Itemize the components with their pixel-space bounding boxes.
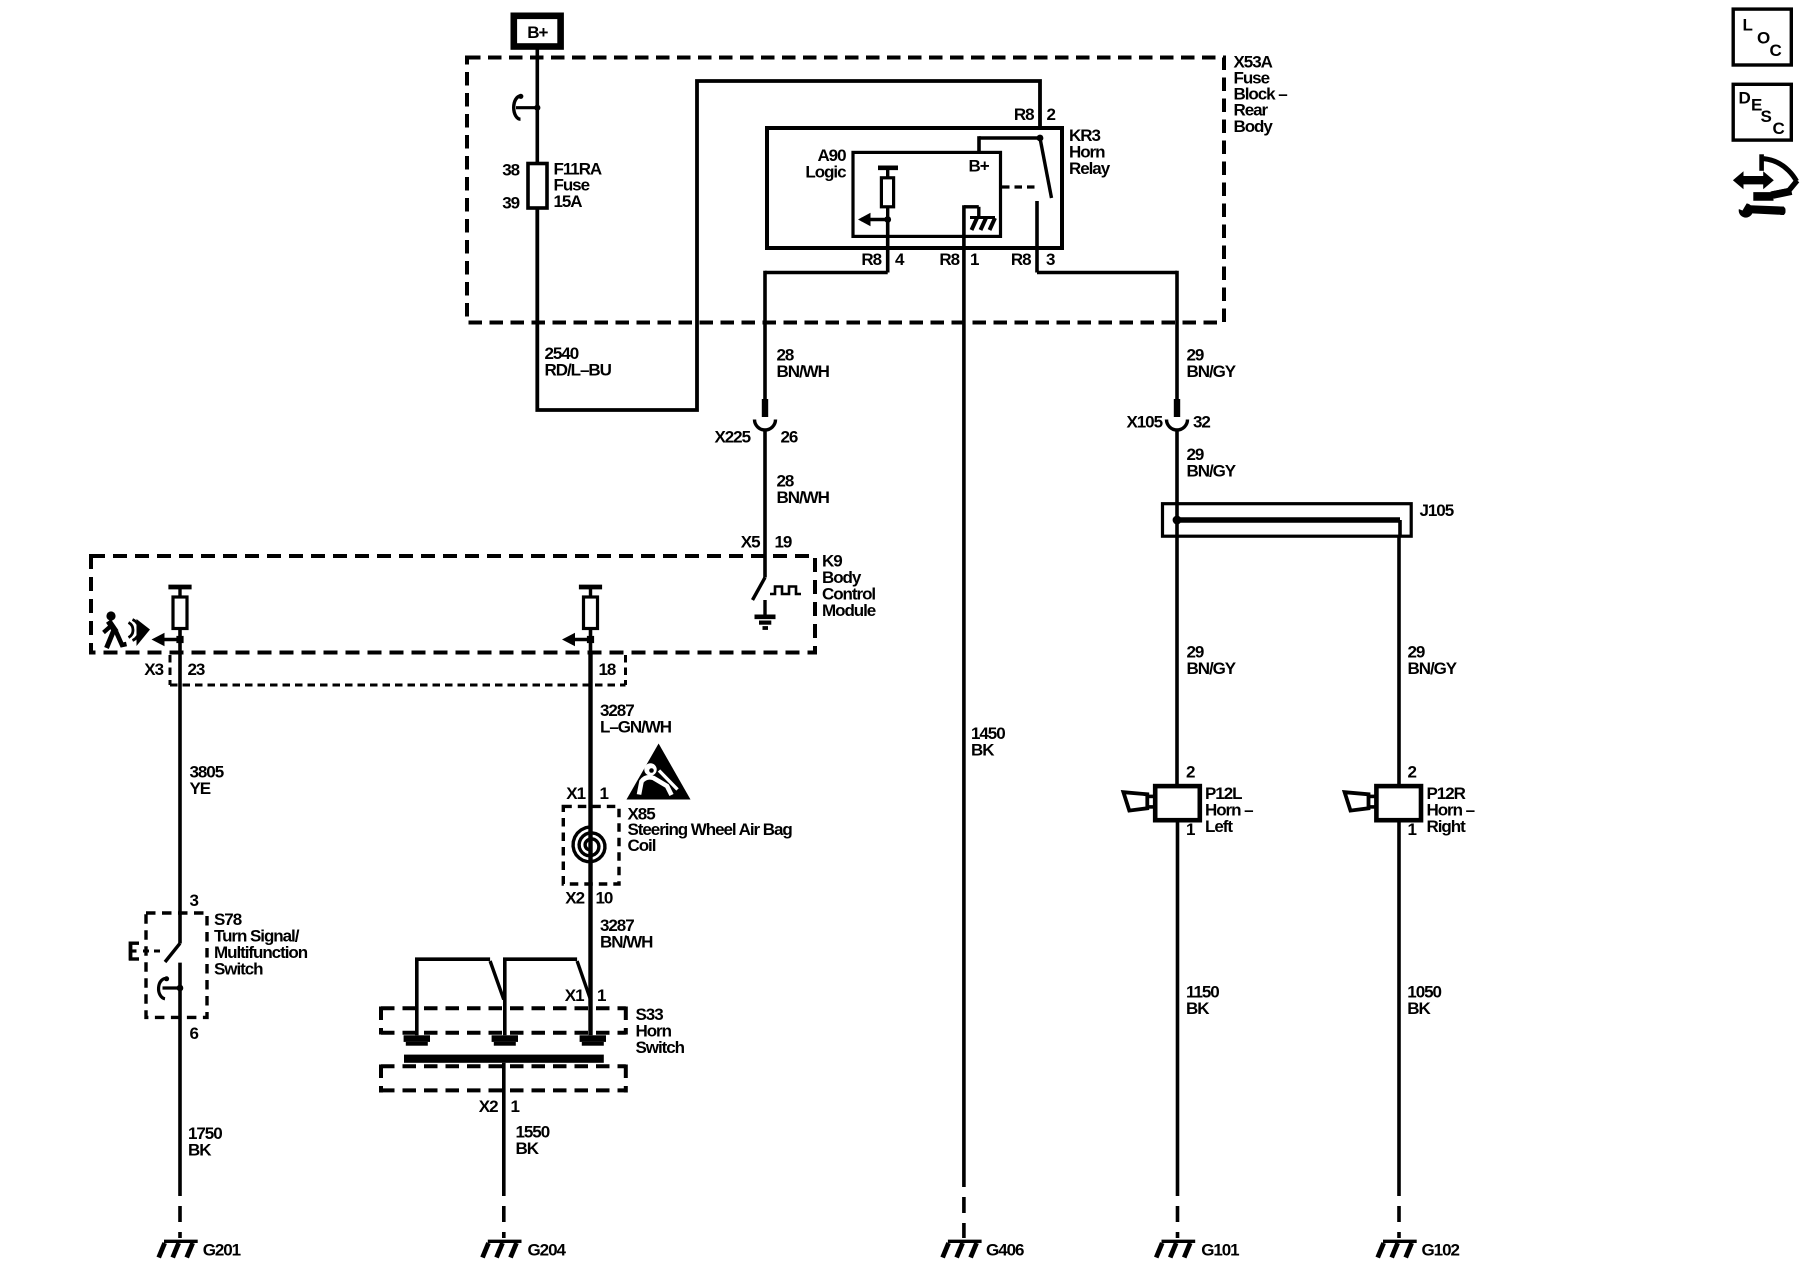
label pin X1 1 (horn switch): [565, 986, 606, 1005]
air bag warning triangle: [627, 744, 691, 800]
label K9 Body Control Module: [822, 551, 876, 620]
svg-text:D: D: [1739, 89, 1751, 108]
svg-text:3: 3: [1046, 250, 1055, 269]
label pin R8 2: [1014, 105, 1056, 124]
wire right horn to G102 (circuit 1050 BK): [1397, 820, 1401, 1180]
svg-text:G406: G406: [986, 1240, 1024, 1259]
svg-text:X2: X2: [479, 1097, 498, 1116]
svg-text:BK: BK: [1186, 999, 1210, 1018]
label pin X2 10: [565, 889, 613, 908]
ground G102: [1378, 1240, 1460, 1259]
label 1750 BK: [188, 1124, 222, 1160]
wire J105 to right horn: [1398, 520, 1402, 536]
ground G201: [159, 1240, 241, 1259]
relay KR3 Horn Relay box: [767, 128, 1062, 248]
svg-text:Relay: Relay: [1069, 159, 1111, 178]
svg-text:15A: 15A: [554, 192, 583, 211]
DESC reference box: [1733, 84, 1791, 140]
horn switch contact 2: [505, 959, 591, 1035]
label 3805 YE: [190, 762, 224, 798]
dashed lead to G204: [502, 1180, 506, 1238]
wire X225 to BCM pin X5 19: [763, 430, 767, 578]
wire coil to horn switch (circuit 3287 BN/WH): [588, 884, 592, 1035]
svg-text:C: C: [1770, 41, 1782, 60]
svg-text:G101: G101: [1201, 1240, 1239, 1259]
label pin X5 19: [741, 532, 792, 551]
svg-text:BN/WH: BN/WH: [777, 362, 830, 381]
wire relay pin4 to BCM (circuit 28 BN/WH): [765, 271, 888, 400]
svg-text:3: 3: [190, 891, 199, 910]
A90 internal ground (pin R8 1): [964, 205, 995, 272]
S78 switch blade: [165, 943, 180, 962]
wire BCM X3-23 to S78 (circuit 3805 YE): [178, 654, 182, 944]
wire fuse to relay pin R8 2 (circuit 2540): [537, 81, 1040, 410]
svg-text:38: 38: [502, 161, 519, 180]
label 28 BN/WH: [777, 346, 830, 382]
X85 Steering Wheel Air Bag Coil dashed box: [563, 806, 619, 884]
svg-text:R8: R8: [939, 250, 959, 269]
svg-text:Body: Body: [1234, 117, 1274, 136]
label 1050 BK: [1407, 982, 1441, 1018]
label X85 Steering Wheel Air Bag Coil: [628, 804, 793, 855]
svg-text:X2: X2: [565, 889, 584, 908]
label 29 BN/GY: [1187, 346, 1237, 382]
svg-text:2: 2: [1408, 763, 1417, 782]
svg-text:1: 1: [1186, 820, 1195, 839]
svg-text:L: L: [1743, 16, 1753, 35]
svg-text:G204: G204: [528, 1240, 567, 1259]
wire relay pin3 to X105 (circuit 29 BN/GY): [1037, 271, 1177, 400]
svg-text:RD/L–BU: RD/L–BU: [545, 361, 612, 380]
svg-text:X1: X1: [565, 986, 584, 1005]
BCM K9 dashed box: [91, 556, 815, 653]
dashed lead to G101: [1176, 1180, 1180, 1238]
wire X105 to J105: [1175, 430, 1179, 520]
horn P12R box and trumpet: [1345, 786, 1421, 820]
splice pack J105: [1163, 501, 1454, 536]
svg-text:Left: Left: [1205, 817, 1233, 836]
connector clip on B+ feed: [514, 94, 541, 119]
PWM squiggle: [770, 587, 801, 595]
wire relay pin1 down to G406 (circuit 1450 BK): [962, 273, 966, 1172]
wire BCM 18 to air bag coil (circuit 3287 L-GN/WH): [588, 654, 592, 884]
svg-text:2: 2: [1186, 763, 1195, 782]
fuse F11RA 15A: [502, 159, 602, 212]
A90 Logic box: [853, 152, 1001, 236]
svg-text:BN/GY: BN/GY: [1408, 659, 1458, 678]
svg-text:Logic: Logic: [805, 163, 846, 182]
svg-text:BN/GY: BN/GY: [1187, 362, 1237, 381]
label pin R8 3: [1011, 250, 1055, 269]
wire B+ to fuse F11RA: [535, 49, 539, 165]
ground G101: [1156, 1240, 1239, 1259]
label X53A Fuse Block - Rear Body: [1234, 52, 1288, 135]
relay switch blade pin 2 to pin 3: [1037, 138, 1052, 273]
svg-text:Switch: Switch: [636, 1038, 685, 1057]
svg-text:G102: G102: [1422, 1240, 1460, 1259]
svg-text:J105: J105: [1420, 501, 1454, 520]
svg-text:Coil: Coil: [628, 836, 656, 855]
svg-text:Module: Module: [822, 601, 876, 620]
wire relay internal B+ feed to A90 logic: [979, 135, 1043, 154]
repair information icon (arrows and wrench): [1733, 154, 1797, 217]
svg-text:L–GN/WH: L–GN/WH: [600, 718, 672, 737]
label 29 BN/GY: [1408, 642, 1458, 678]
svg-text:BN/WH: BN/WH: [600, 933, 653, 952]
S78 lower contact wire to pin 6: [178, 963, 182, 1180]
svg-text:BK: BK: [971, 741, 995, 760]
contact pads: [404, 1035, 606, 1045]
relay coil drive: T-bar, resistor, arrow (pin R8 4): [858, 168, 898, 273]
svg-text:Switch: Switch: [214, 960, 263, 979]
svg-text:10: 10: [596, 889, 613, 908]
connector X105 pin 32: [1126, 399, 1210, 431]
svg-text:Right: Right: [1427, 817, 1467, 836]
svg-text:23: 23: [188, 660, 205, 679]
svg-text:6: 6: [190, 1024, 199, 1043]
label A90 Logic: [805, 146, 846, 181]
node B+ battery feed box: [514, 16, 561, 47]
dashed lead to G406: [962, 1171, 966, 1238]
svg-text:R8: R8: [861, 250, 881, 269]
label 29 BN/GY: [1187, 642, 1237, 678]
label pin X1 1: [566, 784, 608, 803]
dashed lead to G102: [1397, 1180, 1401, 1238]
label S78 Turn Signal/Multifunction Switch: [214, 910, 308, 979]
svg-text:19: 19: [775, 532, 792, 551]
svg-text:1: 1: [597, 986, 606, 1005]
wire J105 to left horn: [1175, 520, 1179, 786]
svg-text:32: 32: [1193, 412, 1210, 431]
label 28 BN/WH: [777, 471, 830, 507]
BCM driver 2 (horn switch sense): [562, 587, 602, 654]
mechanical link E: [129, 942, 161, 961]
svg-text:YE: YE: [190, 779, 211, 798]
svg-text:BK: BK: [516, 1139, 540, 1158]
label KR3 Horn Relay: [1069, 126, 1111, 178]
dashed actuator link A90 to switch: [1002, 185, 1036, 188]
S33 horn switch lower dashed box: [381, 1065, 626, 1093]
BCM driver 1 (left, pedestrian alert): [152, 587, 192, 654]
fuse block X53A dashed box: [467, 58, 1224, 323]
svg-text:1: 1: [511, 1097, 520, 1116]
BCM low-side switch blade: [753, 578, 766, 601]
dashed lead to G201: [178, 1180, 182, 1238]
label 3287 L-GN/WH: [600, 701, 672, 737]
ground G406: [943, 1240, 1024, 1259]
ground symbol inside BCM: [755, 600, 776, 628]
svg-text:B+: B+: [969, 157, 990, 176]
svg-text:R8: R8: [1011, 250, 1031, 269]
svg-text:X225: X225: [714, 427, 750, 446]
horn switch contact 1: [417, 959, 504, 1035]
svg-text:BK: BK: [188, 1141, 212, 1160]
label 1150 BK: [1186, 982, 1219, 1018]
svg-text:X105: X105: [1126, 412, 1162, 431]
label 3287 BN/WH: [600, 916, 653, 952]
label pin R8 1: [939, 250, 979, 269]
label circuit 2540 RD/L-BU: [545, 344, 612, 380]
common contact bar: [404, 1055, 604, 1063]
svg-text:O: O: [1757, 29, 1770, 48]
svg-text:1: 1: [600, 784, 609, 803]
pedestrian alert icon: [104, 611, 151, 648]
svg-text:X1: X1: [566, 784, 585, 803]
label pin R8 4: [861, 250, 905, 269]
svg-text:1: 1: [970, 250, 979, 269]
svg-text:39: 39: [502, 193, 519, 212]
label P12R Horn - Right: [1427, 784, 1475, 836]
svg-text:G201: G201: [203, 1240, 241, 1259]
wire S33 to G204 (circuit 1550 BK): [502, 1063, 506, 1180]
clockspring coil spiral: [573, 827, 605, 862]
momentary hook and contact: [159, 976, 184, 999]
svg-text:B+: B+: [527, 23, 548, 42]
label P12L Horn - Left: [1205, 784, 1253, 836]
svg-text:2: 2: [1047, 105, 1056, 124]
horn P12L box and trumpet: [1123, 786, 1199, 820]
label pin X2 1: [479, 1097, 520, 1116]
label 1450 BK: [971, 724, 1005, 760]
svg-text:X3: X3: [144, 660, 163, 679]
svg-text:BN/GY: BN/GY: [1187, 461, 1237, 480]
LOC reference box: [1733, 9, 1791, 65]
S78 Turn Signal/Multifunction Switch dashed box: [146, 913, 207, 1017]
wire left horn to G101 (circuit 1150 BK): [1176, 820, 1180, 1180]
svg-text:X5: X5: [741, 532, 760, 551]
connector X225 pin 26: [714, 399, 797, 446]
svg-text:C: C: [1773, 119, 1785, 138]
svg-text:BN/GY: BN/GY: [1187, 659, 1237, 678]
svg-text:26: 26: [781, 427, 798, 446]
svg-text:BK: BK: [1407, 999, 1431, 1018]
svg-text:BN/WH: BN/WH: [777, 488, 830, 507]
label 1550 BK: [516, 1123, 550, 1159]
svg-text:S: S: [1761, 107, 1772, 126]
ground G204: [483, 1240, 567, 1259]
label pin X3 23: [144, 660, 205, 679]
label S33 Horn Switch: [636, 1005, 685, 1057]
svg-text:R8: R8: [1014, 105, 1034, 124]
svg-text:18: 18: [599, 660, 616, 679]
S33 horn switch upper dashed box: [381, 1007, 626, 1035]
label 29 BN/GY: [1187, 445, 1237, 481]
BCM connector X3 dashed row: [170, 655, 626, 685]
svg-text:1: 1: [1408, 820, 1417, 839]
svg-text:4: 4: [895, 250, 905, 269]
